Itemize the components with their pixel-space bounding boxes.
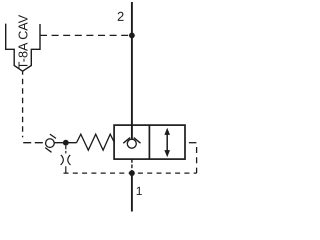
wire: short drop below orifice	[65, 166, 67, 173]
wire: dashed pilot drop from cavity tip	[22, 71, 24, 137]
svg-text:T-8A CAV: T-8A CAV	[17, 14, 31, 69]
wire: main vertical line top (port 2 line)	[131, 2, 133, 139]
node 2	[129, 33, 135, 39]
wire: main vertical line bottom (port 1 line)	[131, 173, 133, 211]
spring	[77, 134, 115, 150]
node 1	[129, 170, 135, 176]
wire: dashed drop from pilot junction	[65, 146, 67, 154]
wire: dashed drain line to port 1	[64, 172, 197, 174]
svg-text:1: 1	[136, 184, 143, 198]
cavity T-8A CAV outline	[6, 24, 40, 72]
check valve poppet (left box)	[127, 139, 136, 148]
node (pilot junction)	[63, 140, 69, 146]
wire: dashed pilot horizontal to orifice disc	[23, 142, 45, 144]
wire: dashed right-side drop	[196, 143, 198, 173]
wire: dashed pilot line from cavity to node 2	[40, 34, 130, 36]
valve body U1 (2-position, 2-way)	[114, 125, 185, 159]
wire: solid pilot line circle to spring	[54, 142, 76, 144]
wire: dashed valve outlet to node 1	[131, 159, 133, 171]
drain orifice (restriction arcs)	[61, 155, 64, 165]
orifice disc with diagonal ticks	[50, 134, 56, 138]
wire: dashed connector valve right to drain	[185, 142, 197, 144]
svg-text:2: 2	[117, 9, 124, 24]
flow arrow (right box)	[166, 134, 168, 152]
